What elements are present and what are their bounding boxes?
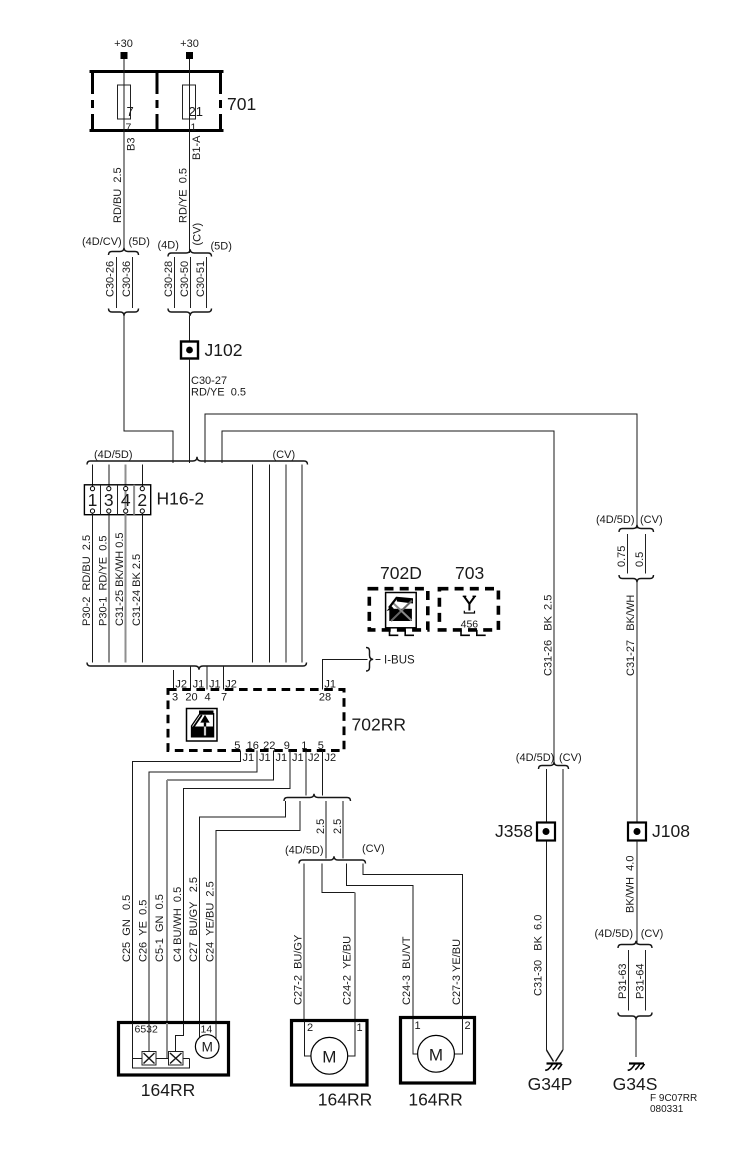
svg-text:1: 1 [191, 122, 197, 134]
label 164RR switch unit [141, 1080, 195, 1100]
svg-text:M: M [429, 1046, 443, 1065]
svg-text:G34P: G34P [528, 1074, 573, 1094]
svg-text:C27-3 YE/BU: C27-3 YE/BU [451, 939, 463, 1005]
svg-text:(4D/5D): (4D/5D) [596, 514, 635, 526]
splice J358 [495, 821, 555, 841]
wire pin5 J2 [323, 751, 337, 796]
svg-text:B1-A: B1-A [191, 135, 203, 160]
wire P30-2 RD/BU 2.5 [81, 513, 93, 663]
svg-text:(CV): (CV) [362, 843, 385, 855]
svg-text:28: 28 [319, 692, 331, 704]
splice J102 [181, 340, 242, 360]
distribution brace below J2 pins [284, 794, 351, 801]
svg-text:C30-27: C30-27 [191, 375, 227, 387]
svg-text:J2: J2 [325, 752, 337, 764]
wire rail to G34S column [205, 414, 637, 529]
svg-text:164RR: 164RR [318, 1090, 372, 1110]
connector option group C30-26 / C30-36 [105, 248, 139, 316]
svg-text:7: 7 [127, 104, 134, 119]
wire to ground G34S [635, 1020, 637, 1057]
svg-text:703: 703 [455, 563, 484, 583]
svg-text:RD/YE 0.5: RD/YE 0.5 [191, 387, 246, 399]
svg-text:0.75: 0.75 [616, 546, 628, 567]
svg-text:P31-64: P31-64 [635, 964, 647, 999]
svg-text:P31-63: P31-63 [617, 964, 629, 999]
svg-text:4: 4 [204, 692, 210, 704]
svg-text:702RR: 702RR [352, 715, 406, 735]
motor distribution brace [299, 856, 366, 863]
wire +30 left to fusebox [123, 59, 125, 70]
variant labels above G34P brace [516, 752, 582, 764]
wire 2.5 branch right [332, 801, 344, 859]
svg-text:0.5: 0.5 [634, 552, 646, 567]
svg-text:C31-26 BK 2.5: C31-26 BK 2.5 [543, 595, 555, 676]
svg-text:C31-30 BK 6.0: C31-30 BK 6.0 [533, 915, 545, 996]
variant brace above H16-2 [87, 449, 308, 465]
wire pin22 J1 to switch 164RR [167, 751, 287, 1022]
switch unit motor M [195, 1035, 219, 1059]
control module 702RR [168, 690, 406, 751]
svg-text:(4D/5D): (4D/5D) [94, 449, 133, 461]
svg-text:J1: J1 [292, 752, 304, 764]
svg-text:16: 16 [247, 740, 259, 752]
wire P30-1 RD/YE 0.5 [97, 513, 109, 663]
wire rail to G34P column [222, 431, 554, 765]
svg-text:F 9C07RR: F 9C07RR [650, 1093, 697, 1104]
switch module 702D [369, 563, 428, 635]
svg-text:C27-2 BU/GY: C27-2 BU/GY [292, 934, 304, 1005]
pin 1 of fuse box [191, 122, 197, 134]
variant labels above motor brace [285, 843, 385, 857]
wire labels into switch unit 164RR [121, 877, 216, 962]
svg-text:1: 1 [415, 1020, 421, 1032]
connector option group C30-28 / C30-50 / C30-51 [163, 249, 212, 315]
switch unit internal wiring [133, 1023, 216, 1068]
svg-text:I-BUS: I-BUS [384, 654, 415, 666]
svg-text:164RR: 164RR [408, 1090, 462, 1110]
switch contact A [142, 1052, 156, 1066]
wire RD/BU continues with jog to brace [124, 316, 173, 463]
svg-text:3: 3 [172, 692, 178, 704]
svg-text:M: M [322, 1048, 336, 1067]
receiver module 703 [439, 563, 498, 635]
ground G34S [613, 1064, 658, 1095]
svg-text:C31-24 BK 2.5: C31-24 BK 2.5 [131, 554, 143, 626]
svg-text:C24-3 BU/VT: C24-3 BU/VT [401, 936, 413, 1005]
svg-text:2.5: 2.5 [332, 819, 344, 834]
svg-text:(4D/5D): (4D/5D) [595, 928, 634, 940]
svg-text:1: 1 [357, 1022, 363, 1034]
wire C24-2 YE/BU to motor 2 [322, 864, 355, 1022]
fuse 7 [118, 70, 134, 132]
svg-text:(CV): (CV) [640, 514, 663, 526]
svg-text:(4D/5D): (4D/5D) [516, 752, 555, 764]
wire branch to switch motor feed 1 [200, 801, 286, 1022]
wire pin9 J1 to switch 164RR [183, 751, 303, 1022]
svg-text:2: 2 [465, 1020, 471, 1032]
svg-text:702D: 702D [380, 563, 422, 583]
svg-text:C30-36: C30-36 [121, 261, 133, 297]
svg-text:+30: +30 [180, 38, 199, 50]
wire pin16 J1 to switch 164RR [149, 751, 271, 1022]
splice J108 [628, 821, 690, 841]
svg-text:6532: 6532 [135, 1024, 159, 1036]
svg-text:J102: J102 [205, 340, 243, 360]
svg-text:(CV): (CV) [192, 223, 204, 246]
svg-text:C24-2 YE/BU: C24-2 YE/BU [341, 936, 353, 1005]
svg-text:C30-51: C30-51 [195, 261, 207, 297]
svg-text:(4D): (4D) [158, 240, 179, 252]
variant labels above 0.75/0.5 options [596, 514, 663, 526]
variant labels above P31 options [595, 928, 664, 940]
svg-text:C30-28: C30-28 [163, 261, 175, 297]
svg-text:B3: B3 [126, 138, 138, 151]
svg-text:J1: J1 [276, 752, 288, 764]
wire C27-3 YE/BU to motor 3 [363, 864, 463, 1019]
wire RD/YE 0.5 from fuse 21 [178, 132, 204, 341]
option group P31-63 / P31-64 [617, 941, 652, 1020]
svg-text:J358: J358 [495, 821, 533, 841]
footer drawing number [650, 1093, 697, 1115]
svg-text:9: 9 [284, 740, 290, 752]
svg-text:C26 YE 0.5: C26 YE 0.5 [138, 900, 150, 962]
svg-text:C24 YE/BU 2.5: C24 YE/BU 2.5 [204, 881, 216, 962]
svg-text:J1: J1 [259, 752, 271, 764]
svg-text:1: 1 [301, 740, 307, 752]
switch contact B [169, 1052, 184, 1066]
wire +30 right to fusebox [189, 59, 191, 70]
svg-text:H16-2: H16-2 [157, 489, 205, 509]
wire branch to switch motor feed 2 [216, 801, 300, 1022]
svg-text:20: 20 [185, 692, 197, 704]
wire C31-27 BK/WH label [625, 595, 637, 676]
option group 0.75 / 0.5 [616, 525, 654, 582]
I-BUS brace [366, 648, 415, 672]
connector H16-2 [84, 485, 150, 515]
node +30 left [114, 38, 133, 59]
wire pin1 J2 [306, 751, 320, 796]
svg-text:(4D/5D): (4D/5D) [285, 845, 324, 857]
wire pin5 J1 to switch 164RR [133, 751, 254, 1022]
svg-text:1: 1 [88, 490, 98, 510]
svg-text:701: 701 [227, 94, 256, 114]
window icon in 702RR [187, 709, 218, 742]
switch unit 164RR box [119, 1023, 229, 1076]
wire option group to J108 [636, 582, 638, 822]
svg-text:C25 GN 0.5: C25 GN 0.5 [121, 895, 133, 962]
svg-text:21: 21 [189, 104, 203, 119]
svg-text:2: 2 [307, 1022, 313, 1034]
svg-text:5: 5 [318, 740, 324, 752]
wire I-BUS branch from pin 28 [319, 659, 368, 703]
svg-text:456: 456 [461, 619, 479, 631]
wire C27-2 BU/GY to motor 2 [292, 864, 304, 1022]
svg-text:C30-50: C30-50 [179, 261, 191, 297]
wire C31-25 BK/WH 0.5 [114, 514, 126, 663]
svg-text:C27 BU/GY 2.5: C27 BU/GY 2.5 [188, 877, 200, 962]
svg-text:14: 14 [201, 1024, 213, 1036]
label 164RR motor 3 [408, 1090, 462, 1110]
wire 2.5 branch left [315, 801, 327, 859]
fuse 21 [183, 70, 203, 132]
svg-text:C30-26: C30-26 [105, 261, 117, 297]
svg-text:P30-1 RD/YE 0.5: P30-1 RD/YE 0.5 [97, 536, 109, 627]
svg-text:P30-2 RD/BU 2.5: P30-2 RD/BU 2.5 [81, 535, 93, 626]
svg-text:(CV): (CV) [273, 449, 296, 461]
svg-text:080331: 080331 [650, 1104, 684, 1115]
svg-text:G34S: G34S [613, 1074, 658, 1094]
svg-text:2: 2 [137, 490, 147, 510]
svg-text:(4D/CV): (4D/CV) [82, 236, 122, 248]
svg-text:C5-1 GN 0.5: C5-1 GN 0.5 [154, 894, 166, 962]
svg-text:4: 4 [121, 490, 131, 510]
label 701 [227, 94, 256, 114]
svg-text:J108: J108 [652, 821, 690, 841]
svg-text:2.5: 2.5 [315, 819, 327, 834]
svg-text:C31-27 BK/WH: C31-27 BK/WH [625, 595, 637, 676]
svg-text:3: 3 [104, 490, 114, 510]
wire C24-3 BU/VT to motor 3 [346, 864, 413, 1019]
svg-text:J2: J2 [308, 752, 320, 764]
svg-text:J1: J1 [243, 752, 255, 764]
label H16-2 [157, 489, 205, 509]
G34P variant brace [539, 762, 569, 769]
svg-text:RD/BU 2.5: RD/BU 2.5 [112, 167, 124, 223]
svg-text:M: M [202, 1040, 213, 1055]
pin 7 of fuse box [126, 122, 132, 134]
label 164RR motor 2 [318, 1090, 372, 1110]
motor 2 box 164RR [292, 1021, 368, 1086]
wire C31-26 BK 2.5 label [543, 595, 555, 676]
motor 3 box 164RR [401, 1018, 475, 1084]
svg-text:164RR: 164RR [141, 1080, 195, 1100]
node +30 right [180, 38, 199, 59]
wire RD/BU 2.5 from fuse 7 [112, 132, 138, 250]
wire BK/WH 4.0 below J108 [625, 841, 638, 945]
svg-text:5: 5 [234, 740, 240, 752]
svg-text:(CV): (CV) [559, 752, 582, 764]
svg-text:C31-25 BK/WH 0.5: C31-25 BK/WH 0.5 [114, 532, 126, 626]
svg-text:7: 7 [126, 122, 132, 134]
svg-text:7: 7 [221, 692, 227, 704]
svg-text:RD/YE 0.5: RD/YE 0.5 [178, 168, 190, 223]
svg-text:C4 BU/WH 0.5: C4 BU/WH 0.5 [172, 887, 184, 962]
svg-text:(5D): (5D) [129, 236, 150, 248]
702RR bottom pin numbers [234, 740, 324, 752]
svg-text:(CV): (CV) [641, 928, 664, 940]
ground G34P [528, 1064, 573, 1095]
svg-text:22: 22 [263, 740, 275, 752]
fuse box 701 outline [90, 70, 224, 132]
svg-text:BK/WH 4.0: BK/WH 4.0 [625, 856, 637, 913]
variant closing brace below H16-2 [87, 663, 307, 670]
wire C31-24 BK 2.5 [131, 513, 143, 663]
svg-text:(5D): (5D) [211, 241, 232, 253]
wires brace to connector H16-2 [93, 465, 143, 515]
wires closing brace to 702RR with J pin labels [172, 670, 187, 704]
wire C30-27 RD/YE 0.5 below J102 [190, 359, 247, 464]
CV bypass wires [252, 465, 302, 663]
svg-text:+30: +30 [114, 38, 133, 50]
double wire to ground G34P [533, 769, 563, 1062]
variant labels 4D/CV 5D [82, 236, 232, 253]
